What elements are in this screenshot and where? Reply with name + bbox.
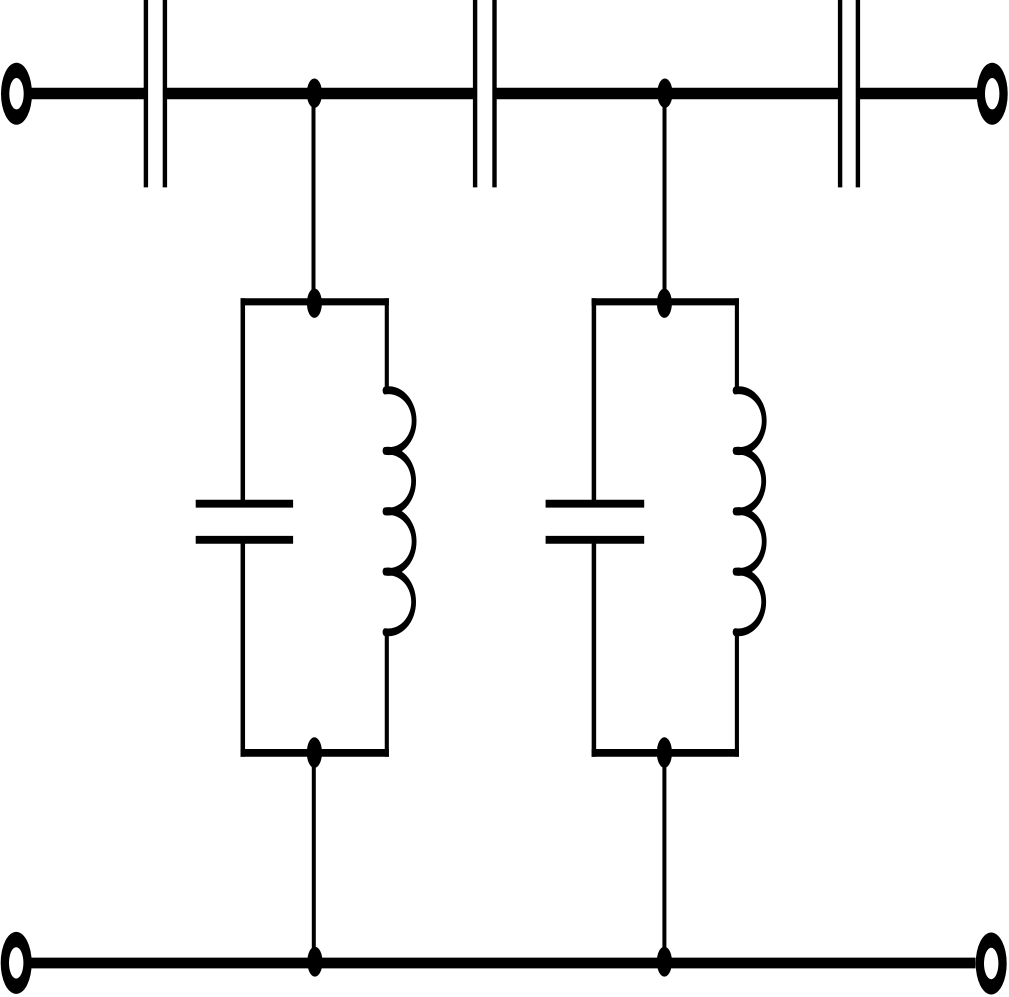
terminal OUT- (bottom right port): [976, 933, 1007, 995]
inductor L1 (tank 1, 4 loops): [385, 390, 414, 632]
wire tank 2 right upper (rail to inductor): [735, 298, 739, 392]
terminal IN- (bottom left port): [1, 932, 32, 994]
wire tank 1 left lower (cap to rail): [241, 540, 246, 757]
wire tank 1 bottom rail: [241, 749, 389, 757]
wire tank 2 bottom to ground bus: [662, 753, 666, 963]
junction dot bottom bus / shunt 2: [657, 947, 672, 977]
terminal OUT+ (top right port): [977, 63, 1008, 125]
capacitor C4 (shunt, tank 1): [196, 504, 293, 540]
wire top bus segment 1 (IN to C1): [31, 88, 147, 100]
inductor L2 (tank 2, 4 loops): [735, 390, 764, 632]
wire tank 1 right lower (inductor to rail): [385, 631, 389, 757]
wire node B down to tank 2: [663, 93, 667, 302]
capacitor C5 (shunt, tank 2): [546, 504, 645, 540]
wire node A down to tank 1: [312, 93, 316, 302]
wire tank 1 right upper (rail to inductor): [385, 298, 389, 392]
junction dot tank 1 top: [307, 289, 322, 318]
node B junction dot (top bus / shunt 2): [657, 79, 672, 108]
wire top bus segment 2 (C1 to C2 via node A): [164, 88, 477, 100]
capacitor C1 (series, top bus): [146, 0, 165, 187]
wire tank 2 left lower (cap to rail): [592, 540, 597, 757]
capacitor C2 (series, top bus): [475, 0, 494, 187]
wire tank 1 left upper (rail to cap): [241, 298, 246, 503]
wire tank 2 top rail: [592, 298, 739, 305]
wire top bus segment 4 (C3 to OUT): [857, 88, 977, 100]
wire bottom ground bus: [32, 958, 976, 969]
capacitor C3 (series, top bus): [840, 0, 858, 187]
wire tank 2 bottom rail: [592, 749, 739, 757]
terminal IN+ (top left port): [1, 63, 32, 125]
junction dot tank 1 bottom: [307, 737, 322, 768]
junction dot tank 2 top: [657, 289, 672, 318]
node A junction dot (top bus / shunt 1): [307, 79, 322, 108]
wire tank 1 bottom to ground bus: [312, 753, 316, 963]
junction dot bottom bus / shunt 1: [307, 947, 322, 977]
wire top bus segment 3 (C2 to C3 via node B): [493, 88, 841, 100]
wire tank 2 left upper (rail to cap): [592, 298, 597, 503]
wire tank 2 right lower (inductor to rail): [735, 631, 739, 757]
wire tank 1 top rail: [241, 298, 389, 305]
junction dot tank 2 bottom: [657, 737, 672, 768]
